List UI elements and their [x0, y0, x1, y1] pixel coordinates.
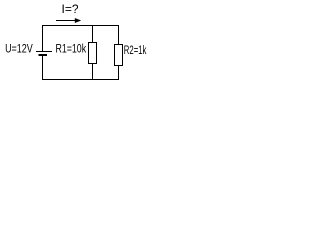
wire left lower (U- to bottom node) — [42, 56, 44, 80]
resistor R1 body — [89, 43, 97, 64]
svg-text:R2=1k: R2=1k — [124, 43, 147, 57]
wire left upper (U+ to top node) — [42, 25, 44, 52]
svg-text:I=?: I=? — [62, 2, 79, 16]
voltage source U (battery) plate + — [36, 51, 52, 53]
wire R1 top lead — [92, 26, 94, 43]
wire bottom (node between U-, R1, R2) — [42, 79, 119, 81]
svg-text:U=12V: U=12V — [5, 42, 33, 56]
voltage source U (battery) plate - — [39, 54, 48, 56]
wire right upper (top node to R2) — [118, 26, 120, 45]
resistor R2 body — [115, 45, 123, 66]
current arrow I shaft — [56, 20, 76, 22]
wire top (node between U+, R1, R2) — [42, 25, 119, 27]
wire R1 bottom lead — [92, 64, 94, 80]
svg-text:R1=10k: R1=10k — [56, 42, 87, 56]
current arrow I head — [75, 18, 81, 23]
wire right lower (R2 to bottom node) — [118, 66, 120, 81]
